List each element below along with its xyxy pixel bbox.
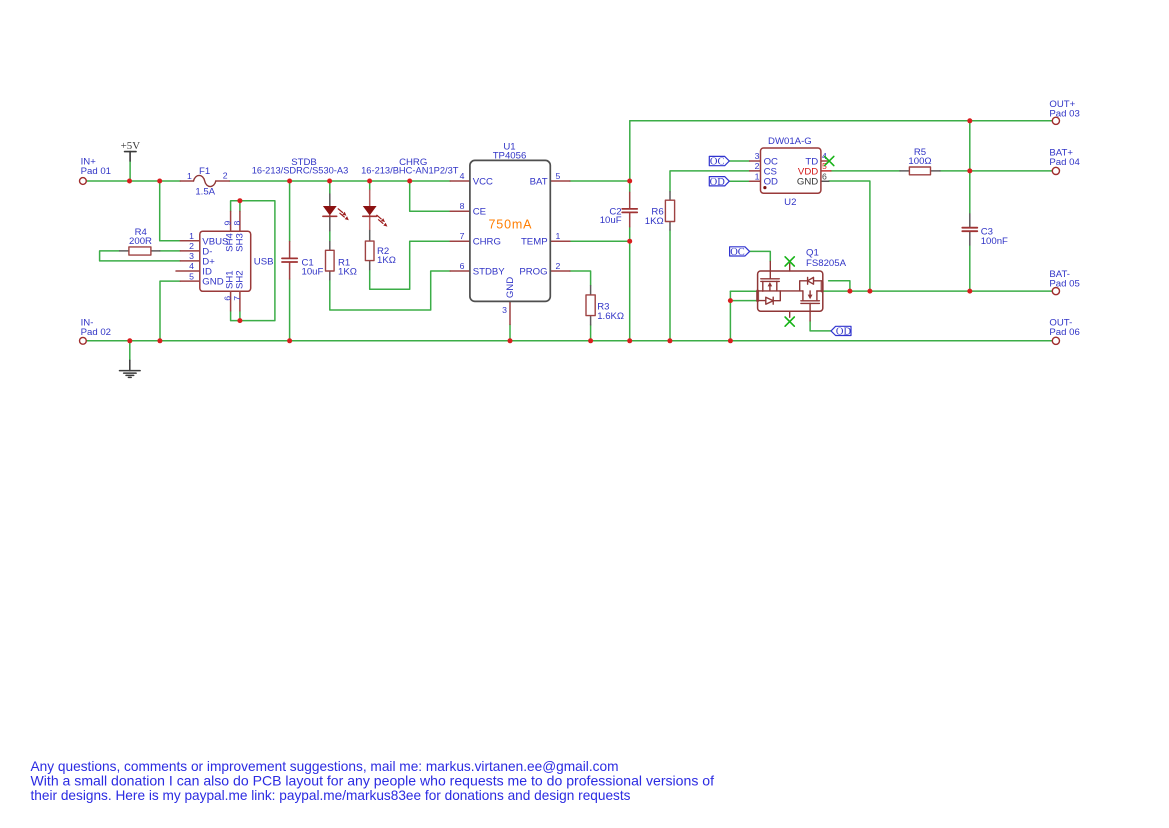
svg-text:2: 2	[189, 241, 194, 251]
wire C1 bottom to IN- rail	[289, 279, 291, 341]
wire Q1 left drop to IN- rail	[729, 291, 731, 341]
wire R6 bottom to IN- rail	[669, 230, 671, 341]
wire OUT+ rail	[630, 120, 1053, 122]
wire LED2 top	[369, 181, 371, 190]
svg-text:OC: OC	[710, 157, 725, 168]
svg-text:1.6KΩ: 1.6KΩ	[597, 311, 624, 322]
svg-text:1.5A: 1.5A	[195, 186, 215, 197]
wire IN+ rail from F1 to U1 VCC	[229, 180, 450, 182]
no-connect X at Q1 bottom	[785, 317, 794, 326]
junction CE branch	[407, 179, 412, 184]
wire R5 to BAT+ Pad04	[940, 170, 1052, 172]
Q1 reference labels	[806, 247, 847, 268]
wire R3 bottom to IN- rail	[590, 325, 592, 341]
wire TEMP from U1 pin1	[570, 240, 630, 242]
svg-text:GND: GND	[797, 177, 818, 188]
svg-text:VCC: VCC	[473, 177, 493, 188]
bottom gate2 pin	[789, 311, 791, 317]
pad P5 BAT-	[1049, 269, 1079, 295]
junction +5V / IN+ rail	[127, 179, 132, 184]
svg-text:10uF: 10uF	[302, 266, 324, 277]
svg-text:9: 9	[223, 221, 233, 226]
svg-text:5: 5	[556, 171, 561, 181]
junction OUT+ rail / C3 trunk	[967, 118, 972, 123]
wire BAT- rail from Q1 to Pad05	[823, 290, 1052, 292]
wire PROG from U1 pin2 to R3	[570, 271, 591, 286]
svg-text:TEMP: TEMP	[521, 237, 548, 248]
svg-text:OD: OD	[710, 177, 726, 188]
svg-text:SH3: SH3	[235, 233, 246, 252]
net label OD at Q1	[831, 326, 851, 337]
pad P3 OUT+	[1049, 99, 1079, 124]
svg-text:Pad 02: Pad 02	[81, 327, 111, 338]
junction Q1 drain / BAT- rail	[847, 289, 852, 294]
svg-text:3: 3	[502, 305, 507, 315]
wire R1 bottom to U1 STDBY	[330, 271, 450, 310]
svg-text:8: 8	[460, 201, 465, 211]
resistor R3 1.6K	[586, 286, 624, 325]
right MOSFET gate and channel	[809, 303, 811, 311]
junction TEMP / C2	[627, 239, 632, 244]
wire Q1 drain right to BAT- rail	[829, 281, 850, 291]
junction BAT / C2	[627, 179, 632, 184]
wire VDD U2 pin5 to R5	[831, 170, 900, 172]
wire R2 bottom to U1 CHRG	[370, 241, 451, 289]
svg-text:1KΩ: 1KΩ	[377, 255, 396, 266]
svg-text:2: 2	[755, 161, 760, 171]
junction Q1 / IN- rail	[728, 338, 733, 343]
junction Q1 left diode branch	[728, 298, 733, 303]
junction VBUS drop	[157, 179, 162, 184]
svg-text:16-213/BHC-AN1P2/3T: 16-213/BHC-AN1P2/3T	[361, 166, 459, 177]
LED D2 CHRG	[361, 157, 459, 230]
pad P6 OUT-	[1049, 318, 1079, 345]
wire C1 top	[289, 181, 291, 242]
junction LED2 top	[367, 179, 372, 184]
resistor R4 200R	[120, 227, 160, 255]
junction USB shield bottom	[237, 318, 242, 323]
junction R3 / IN- rail	[588, 338, 593, 343]
LED D1 STDB	[252, 157, 349, 231]
no-connect X at Q1 top	[785, 257, 794, 266]
svg-text:10uF: 10uF	[600, 215, 622, 226]
junction C1 top	[287, 179, 292, 184]
power symbol +5V	[121, 140, 141, 161]
svg-text:TP4056: TP4056	[493, 151, 527, 162]
svg-text:7: 7	[232, 296, 242, 301]
wire OUT+ vertical trunk to BAT junction	[629, 121, 631, 181]
svg-text:Pad 03: Pad 03	[1049, 109, 1079, 120]
wire D+ loop from R4 left to USB pin3	[100, 251, 181, 261]
svg-text:16-213/SDRC/S530-A3: 16-213/SDRC/S530-A3	[252, 166, 349, 177]
svg-text:6: 6	[822, 171, 827, 181]
junction R6 / IN- rail	[667, 338, 672, 343]
source link line	[758, 290, 803, 292]
wire OD label to U2 pin1	[729, 180, 749, 182]
svg-text:OC: OC	[730, 247, 745, 258]
junction LED1 top	[327, 179, 332, 184]
capacitor C1 10uF	[282, 242, 324, 280]
svg-text:+5V: +5V	[121, 140, 141, 152]
svg-text:1KΩ: 1KΩ	[338, 266, 357, 277]
wire USB shield pin7 bottom	[239, 311, 241, 321]
pad P4 BAT+	[1049, 148, 1080, 175]
wire C2 top stub	[629, 181, 631, 192]
junction USB shield top	[237, 198, 242, 203]
ground symbol	[120, 360, 141, 377]
svg-text:2: 2	[223, 171, 228, 181]
svg-text:4: 4	[189, 261, 194, 271]
svg-text:1KΩ: 1KΩ	[645, 216, 664, 227]
wire OC label to U2 pin3	[729, 160, 749, 162]
wire USB shield loop	[231, 201, 275, 321]
svg-text:7: 7	[460, 231, 465, 241]
junction U2 GND / BAT- rail	[867, 289, 872, 294]
left body diode	[758, 300, 766, 302]
wire U2 GND pin6 down to BAT- rail	[829, 181, 870, 291]
svg-text:CHRG: CHRG	[473, 237, 501, 248]
wire LED1 to R1	[329, 231, 331, 242]
resistor R5 100R	[900, 147, 940, 175]
svg-text:100Ω: 100Ω	[908, 156, 931, 167]
svg-text:GND: GND	[505, 277, 516, 298]
svg-text:U2: U2	[784, 197, 796, 208]
wire OC label to Q1 gate	[750, 251, 771, 261]
right body diode	[814, 280, 823, 282]
svg-text:OD: OD	[836, 327, 852, 338]
wire IN- bottom rail	[87, 340, 1053, 342]
wire C2 bottom trunk to IN- rail	[629, 227, 631, 341]
resistor R2 1K	[365, 231, 396, 270]
capacitor C2 10uF	[600, 192, 637, 226]
footer note text	[31, 759, 715, 803]
fuse F1 1.5A	[180, 166, 229, 197]
wire Q1 left diode lower	[730, 300, 757, 302]
svg-text:8: 8	[232, 221, 242, 226]
junction BAT+ rail / C3	[967, 168, 972, 173]
svg-text:3: 3	[755, 151, 760, 161]
svg-text:CE: CE	[473, 207, 486, 218]
junction C1 / IN- rail	[287, 338, 292, 343]
capacitor C3 100nF	[962, 214, 1008, 247]
junction C2 / IN- rail	[627, 338, 632, 343]
wire LED1 top	[329, 181, 331, 194]
svg-text:OD: OD	[764, 177, 778, 188]
junction USB GND / IN- rail	[157, 338, 162, 343]
svg-text:their designs. Here is my payp: their designs. Here is my paypal.me link…	[31, 788, 631, 803]
wire C3 top trunk from OUT+ rail	[969, 121, 971, 214]
junction U1 GND / IN- rail	[508, 338, 513, 343]
svg-text:FS8205A: FS8205A	[806, 258, 847, 269]
svg-text:F1: F1	[199, 166, 210, 177]
svg-text:750mA: 750mA	[489, 218, 533, 232]
wire R6 top to CS line	[670, 171, 750, 192]
top pin with X	[789, 263, 791, 271]
svg-text:Pad 05: Pad 05	[1049, 278, 1079, 289]
svg-text:5: 5	[189, 271, 194, 281]
svg-text:Pad 01: Pad 01	[81, 166, 111, 177]
svg-text:200R: 200R	[129, 236, 152, 247]
svg-text:Pad 04: Pad 04	[1049, 157, 1080, 168]
svg-text:4: 4	[460, 171, 465, 181]
gate 1 pin from top	[769, 261, 771, 278]
svg-text:SH2: SH2	[235, 270, 246, 289]
svg-text:USB: USB	[254, 256, 274, 267]
net label OC at U2	[709, 156, 729, 167]
resistor R6 1K	[645, 192, 675, 230]
svg-text:Q1: Q1	[806, 247, 819, 258]
svg-text:1: 1	[556, 231, 561, 241]
wire +5V stem	[129, 161, 131, 181]
IC U1 TP4056	[450, 141, 570, 324]
wire USB shield pin8 top	[239, 201, 241, 212]
svg-text:STDBY: STDBY	[473, 267, 506, 278]
junction C3 / BAT- rail	[967, 289, 972, 294]
left MOSFET gate and channel	[761, 278, 780, 280]
edge overlap bars	[756, 291, 759, 301]
wire C3 bottom trunk to BAT- rail	[969, 245, 971, 291]
wire Q1 left source upper	[730, 290, 757, 292]
svg-text:6: 6	[460, 261, 465, 271]
pad P2 IN-	[80, 317, 112, 344]
svg-text:With a small donation I can al: With a small donation I can also do PCB …	[31, 774, 715, 789]
junction ground / IN- rail	[127, 338, 132, 343]
svg-text:BAT: BAT	[530, 177, 548, 188]
connector J1 USB	[176, 211, 274, 311]
svg-text:1: 1	[189, 231, 194, 241]
svg-text:DW01A-G: DW01A-G	[768, 136, 812, 147]
svg-text:100nF: 100nF	[981, 236, 1008, 247]
svg-text:Any questions, comments or imp: Any questions, comments or improvement s…	[31, 759, 619, 774]
IC U2 DW01A-G	[750, 136, 831, 208]
wire CE from rail to U1 pin8	[410, 181, 451, 211]
wire D- from R4 to USB pin2	[160, 250, 181, 252]
svg-text:1: 1	[187, 171, 192, 181]
svg-text:2: 2	[556, 261, 561, 271]
no-connect X at U2 TD	[825, 156, 834, 165]
wire U1 GND to IN- rail	[509, 324, 511, 340]
net label OC at Q1	[730, 247, 750, 258]
transistor Q1 FS8205A dual MOSFET	[758, 261, 823, 321]
wire BAT from U1 pin5	[570, 180, 630, 182]
resistor R1 1K	[326, 242, 357, 280]
wire Q1 pin to OD label	[810, 321, 831, 331]
svg-text:3: 3	[189, 251, 194, 261]
svg-text:GND: GND	[202, 277, 223, 288]
svg-text:1: 1	[755, 171, 760, 181]
wire IN+ rail from Pad01 to fuse F1	[87, 180, 181, 182]
wire VBUS drop to USB pin1	[160, 181, 181, 241]
svg-text:Pad 06: Pad 06	[1049, 327, 1079, 338]
net label OD at U2	[709, 177, 729, 188]
svg-text:6: 6	[223, 296, 233, 301]
pad P1 IN+	[80, 157, 112, 185]
svg-text:PROG: PROG	[519, 267, 547, 278]
wire ground stem	[129, 341, 131, 361]
wire USB GND pin5 to IN- rail	[160, 281, 180, 341]
